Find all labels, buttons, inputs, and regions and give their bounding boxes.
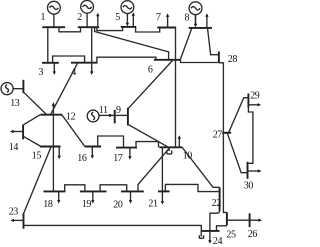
svg-text:17: 17 bbox=[113, 153, 123, 164]
svg-text:6: 6 bbox=[148, 64, 153, 75]
svg-text:4: 4 bbox=[71, 67, 76, 78]
svg-text:22: 22 bbox=[212, 198, 222, 209]
svg-text:8: 8 bbox=[185, 12, 190, 23]
svg-text:5: 5 bbox=[115, 12, 120, 23]
svg-text:11: 11 bbox=[99, 105, 108, 116]
svg-text:16: 16 bbox=[77, 153, 87, 164]
svg-text:26: 26 bbox=[248, 229, 258, 240]
svg-text:10: 10 bbox=[183, 151, 193, 162]
svg-text:27: 27 bbox=[213, 129, 223, 140]
svg-text:2: 2 bbox=[77, 12, 82, 23]
svg-text:29: 29 bbox=[250, 90, 260, 101]
svg-text:18: 18 bbox=[43, 199, 53, 210]
svg-text:13: 13 bbox=[10, 98, 20, 109]
svg-text:3: 3 bbox=[39, 67, 44, 78]
svg-text:23: 23 bbox=[9, 207, 19, 218]
svg-text:19: 19 bbox=[82, 199, 92, 210]
svg-text:12: 12 bbox=[66, 112, 76, 123]
svg-text:25: 25 bbox=[226, 229, 236, 240]
svg-text:24: 24 bbox=[213, 236, 223, 247]
svg-text:20: 20 bbox=[113, 200, 123, 211]
svg-text:30: 30 bbox=[244, 181, 254, 192]
svg-text:15: 15 bbox=[32, 151, 42, 162]
svg-text:9: 9 bbox=[116, 105, 121, 116]
svg-text:7: 7 bbox=[156, 12, 161, 23]
svg-text:21: 21 bbox=[148, 198, 158, 209]
svg-text:14: 14 bbox=[9, 142, 19, 153]
svg-text:28: 28 bbox=[228, 54, 238, 65]
svg-text:1: 1 bbox=[41, 12, 46, 23]
